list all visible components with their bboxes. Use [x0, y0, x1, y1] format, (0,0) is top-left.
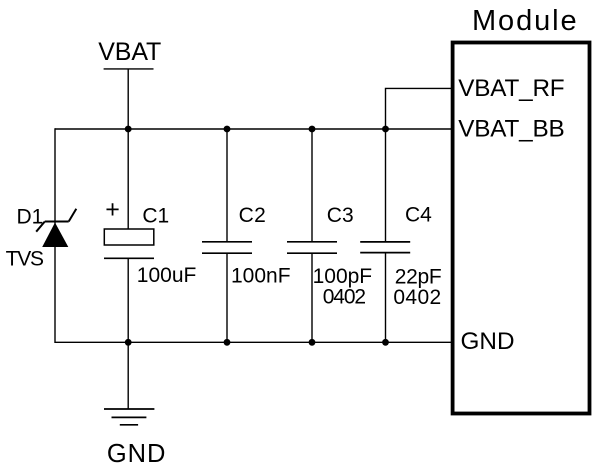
svg-text:VBAT_BB: VBAT_BB — [458, 116, 564, 143]
node junction bus C3 — [309, 126, 316, 133]
wire VBAT_RF net — [386, 88, 452, 129]
svg-text:C3: C3 — [327, 204, 354, 227]
node junction gnd C2 — [224, 339, 231, 346]
svg-text:C2: C2 — [239, 204, 267, 227]
svg-text:0402: 0402 — [323, 286, 366, 309]
diode D1 TVS — [36, 209, 76, 247]
wire left branch — [54, 128, 56, 343]
svg-text:100uF: 100uF — [137, 264, 197, 287]
wire VBAT bus — [55, 128, 451, 130]
svg-text:TVS: TVS — [6, 248, 44, 271]
capacitor C4 — [360, 129, 410, 342]
ground symbol — [104, 342, 154, 425]
node junction gnd C3 — [309, 339, 316, 346]
power symbol VBAT — [104, 69, 154, 129]
svg-text:D1: D1 — [17, 206, 44, 229]
capacitor C3 — [287, 129, 337, 342]
capacitor C2 — [202, 129, 252, 342]
svg-text:100pF: 100pF — [313, 265, 373, 288]
wire GND rail — [55, 341, 451, 343]
node junction bus C1 — [125, 126, 132, 133]
svg-text:+: + — [105, 196, 120, 224]
module box U1 — [453, 43, 590, 414]
svg-text:GND: GND — [107, 440, 166, 468]
svg-text:Module: Module — [472, 5, 579, 37]
svg-text:VBAT_RF: VBAT_RF — [458, 75, 564, 102]
node junction gnd C4 — [382, 339, 389, 346]
svg-text:C1: C1 — [142, 204, 169, 227]
svg-text:100nF: 100nF — [231, 265, 291, 288]
node junction bus C4 — [382, 126, 389, 133]
node junction bus C2 — [224, 126, 231, 133]
svg-text:0402: 0402 — [393, 286, 441, 309]
svg-text:GND: GND — [461, 328, 515, 355]
svg-text:C4: C4 — [405, 203, 432, 226]
svg-text:VBAT: VBAT — [98, 38, 161, 66]
node junction gnd C1 — [125, 339, 132, 346]
capacitor C1 — [104, 129, 154, 342]
